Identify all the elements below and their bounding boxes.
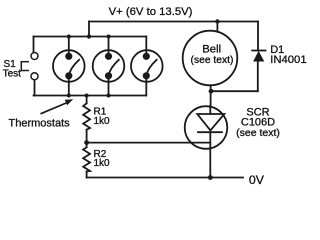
svg-text:Test: Test	[3, 69, 22, 80]
svg-text:1k0: 1k0	[94, 158, 111, 169]
svg-text:(see text): (see text)	[236, 127, 280, 139]
svg-text:Thermostats: Thermostats	[9, 117, 71, 129]
svg-text:0V: 0V	[249, 173, 265, 187]
svg-text:Bell: Bell	[202, 44, 221, 56]
svg-text:IN4001: IN4001	[270, 54, 306, 66]
svg-text:1k0: 1k0	[94, 116, 111, 127]
svg-text:V+ (6V to 13.5V): V+ (6V to 13.5V)	[109, 6, 193, 18]
svg-text:(see text): (see text)	[191, 55, 234, 66]
